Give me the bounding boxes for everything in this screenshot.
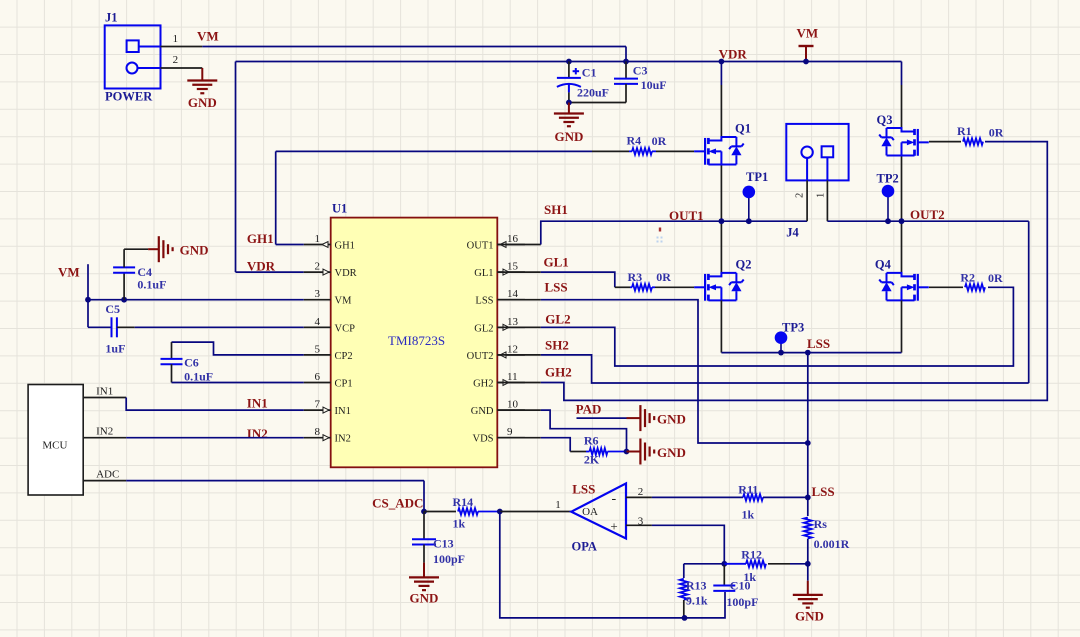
svg-text:VDR: VDR: [247, 259, 276, 274]
svg-text:2: 2: [173, 54, 179, 66]
svg-text:TMI8723S: TMI8723S: [388, 333, 445, 348]
svg-text:-: -: [611, 491, 616, 506]
svg-text:3: 3: [315, 288, 321, 300]
svg-text:C13: C13: [433, 537, 454, 551]
svg-text:Q4: Q4: [875, 258, 892, 272]
svg-text:CS_ADC: CS_ADC: [372, 495, 423, 510]
svg-text:14: 14: [507, 288, 519, 300]
svg-text:OUT2: OUT2: [467, 351, 494, 362]
svg-text:7: 7: [315, 399, 321, 411]
svg-text:C6: C6: [184, 356, 199, 370]
svg-text:GND: GND: [657, 412, 686, 427]
svg-text:15: 15: [507, 261, 519, 273]
svg-text:GL2: GL2: [545, 312, 570, 327]
svg-text:IN2: IN2: [335, 434, 351, 445]
svg-text:GND: GND: [471, 406, 494, 417]
svg-text:1: 1: [816, 193, 827, 198]
svg-text:R2: R2: [960, 271, 975, 285]
svg-text:VDR: VDR: [335, 268, 357, 279]
svg-text:CP1: CP1: [335, 379, 353, 390]
svg-text:C10: C10: [730, 579, 751, 593]
svg-text:GND: GND: [410, 591, 439, 606]
svg-text:IN2: IN2: [247, 426, 268, 441]
svg-text:5: 5: [315, 343, 321, 355]
svg-text:IN2: IN2: [96, 426, 113, 438]
svg-text:100pF: 100pF: [433, 552, 465, 566]
svg-text:IN1: IN1: [247, 396, 268, 411]
svg-text:9: 9: [507, 426, 513, 438]
svg-text:Q2: Q2: [736, 258, 752, 272]
svg-text:3: 3: [638, 516, 644, 528]
svg-text:1: 1: [555, 499, 561, 511]
svg-text:R4: R4: [627, 134, 642, 148]
svg-text:R3: R3: [628, 270, 643, 284]
svg-text:J4: J4: [786, 226, 799, 240]
svg-text:R11: R11: [738, 483, 758, 497]
svg-text:2: 2: [315, 261, 321, 273]
svg-text:OUT1: OUT1: [669, 208, 704, 223]
svg-text:1k: 1k: [453, 517, 466, 531]
svg-text:IN1: IN1: [96, 386, 113, 398]
svg-text:1uF: 1uF: [105, 342, 125, 356]
svg-text:GND: GND: [657, 445, 686, 460]
svg-text:VM: VM: [58, 265, 80, 280]
svg-text:10: 10: [507, 399, 519, 411]
svg-text:9.1k: 9.1k: [686, 594, 708, 608]
svg-text:SH1: SH1: [544, 202, 568, 217]
svg-text:GH1: GH1: [335, 241, 355, 252]
svg-text:VM: VM: [797, 26, 819, 41]
svg-text:11: 11: [507, 371, 518, 383]
svg-text:0R: 0R: [656, 270, 671, 284]
svg-text:J1: J1: [105, 11, 118, 25]
svg-text:0R: 0R: [652, 134, 667, 148]
svg-text:LSS: LSS: [812, 484, 835, 499]
svg-text:12: 12: [507, 343, 518, 355]
svg-text:OUT1: OUT1: [467, 241, 494, 252]
svg-text:C5: C5: [105, 302, 120, 316]
svg-text:TP1: TP1: [746, 170, 768, 184]
svg-text:0.1uF: 0.1uF: [137, 278, 166, 292]
svg-text:SH2: SH2: [545, 338, 569, 353]
svg-text:CP2: CP2: [335, 351, 353, 362]
svg-text:OPA: OPA: [572, 540, 597, 554]
svg-text:2: 2: [795, 193, 806, 198]
svg-text:GND: GND: [795, 609, 824, 624]
svg-text:0.1uF: 0.1uF: [184, 370, 213, 384]
svg-text:TP2: TP2: [877, 172, 899, 186]
svg-text:13: 13: [507, 316, 519, 328]
svg-text:GL1: GL1: [474, 268, 493, 279]
svg-text:GH1: GH1: [247, 231, 274, 246]
svg-text:IN1: IN1: [335, 406, 351, 417]
svg-text:VM: VM: [335, 296, 353, 307]
svg-text:220uF: 220uF: [577, 86, 609, 100]
svg-text:VM: VM: [197, 29, 219, 44]
svg-text:GL2: GL2: [474, 323, 493, 334]
svg-text:0R: 0R: [988, 271, 1003, 285]
svg-text:GND: GND: [188, 95, 217, 110]
svg-text:GL1: GL1: [544, 254, 569, 269]
svg-text:LSS: LSS: [545, 280, 568, 295]
svg-text:Q3: Q3: [877, 113, 893, 127]
svg-text:GH2: GH2: [545, 365, 572, 380]
svg-text:+: +: [610, 518, 617, 533]
svg-text:GND: GND: [180, 243, 209, 258]
svg-text:8: 8: [315, 426, 321, 438]
svg-text:4: 4: [315, 316, 321, 328]
svg-text:0.001R: 0.001R: [814, 537, 850, 551]
svg-text:10uF: 10uF: [641, 78, 667, 92]
svg-text:POWER: POWER: [105, 90, 153, 104]
svg-text:0R: 0R: [989, 126, 1004, 140]
svg-text:U1: U1: [332, 202, 347, 216]
svg-text:1: 1: [315, 233, 321, 245]
svg-text:LSS: LSS: [475, 296, 493, 307]
svg-text:VDS: VDS: [472, 434, 493, 445]
svg-text:GND: GND: [554, 129, 583, 144]
svg-text:C3: C3: [633, 64, 648, 78]
svg-text:ADC: ADC: [96, 469, 119, 481]
svg-text:GH2: GH2: [473, 379, 493, 390]
svg-text:Q1: Q1: [735, 122, 751, 136]
svg-text:16: 16: [507, 233, 519, 245]
svg-text:R6: R6: [584, 434, 599, 448]
svg-text:R12: R12: [741, 548, 762, 562]
svg-text:2K: 2K: [584, 453, 600, 467]
svg-text:LSS: LSS: [572, 481, 595, 496]
svg-text:R13: R13: [686, 579, 707, 593]
svg-text:OUT2: OUT2: [910, 207, 945, 222]
svg-text:C1: C1: [582, 66, 597, 80]
svg-text:6: 6: [315, 371, 321, 383]
svg-text:2: 2: [638, 486, 644, 498]
svg-text:Rs: Rs: [814, 517, 828, 531]
svg-text:1: 1: [173, 33, 179, 45]
svg-text:R1: R1: [957, 124, 972, 138]
svg-text:R14: R14: [453, 495, 474, 509]
svg-text:LSS: LSS: [807, 336, 830, 351]
svg-text:1k: 1k: [742, 508, 755, 522]
svg-text:100pF: 100pF: [726, 595, 758, 609]
svg-text:OA: OA: [582, 506, 598, 518]
svg-text:VCP: VCP: [335, 323, 356, 334]
svg-text:PAD: PAD: [576, 402, 602, 417]
svg-text:MCU: MCU: [42, 440, 67, 452]
svg-text:TP3: TP3: [782, 321, 804, 335]
